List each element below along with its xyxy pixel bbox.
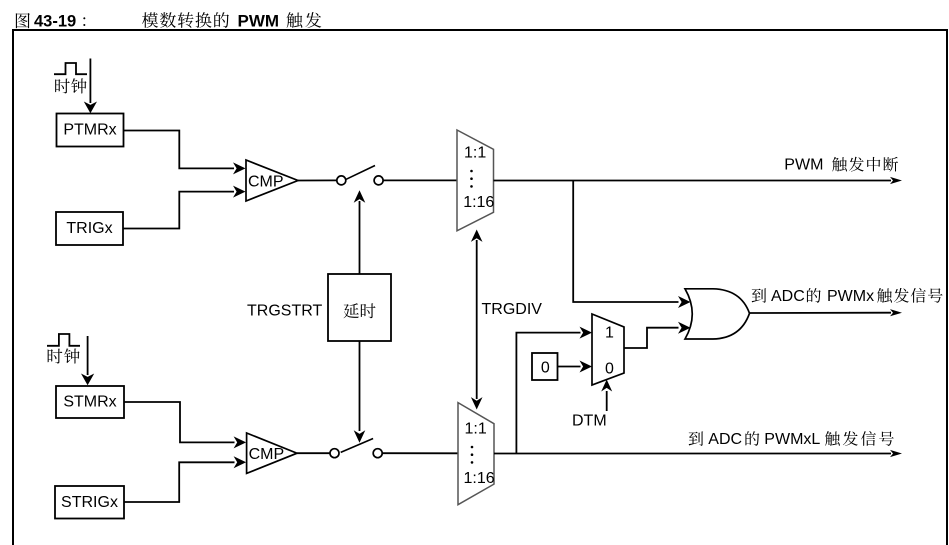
wire divider2 output branch up to mux input 1 [516,333,580,454]
delay box 延时 [328,274,391,341]
switch (top) [337,176,346,185]
svg-text:PWMxL: PWMxL [764,431,820,448]
DTM select arrow [606,391,608,411]
register TRIGx [56,212,123,245]
register PTMRx [57,114,124,147]
clock pulse symbol (bottom) [47,334,80,346]
svg-text:PTMRx: PTMRx [63,122,116,139]
svg-text:TRGDIV: TRGDIV [482,301,543,318]
label 到 ADC 的 PWMx 触发信号 [752,288,766,302]
figure title: 图 43-19： 模数转换的 PWM 触发 [16,12,321,31]
wire STRIGx to CMP2 [124,462,235,502]
svg-text:TRGSTRT: TRGSTRT [247,302,322,319]
svg-text:ADC: ADC [708,431,742,448]
svg-text:CMP: CMP [248,174,284,191]
label 到 ADC 的 PWMxL 触发信号 [689,431,703,445]
wire ADC PWMx trigger output [750,312,892,314]
svg-text:1:16: 1:16 [464,470,495,487]
OR gate [685,289,750,339]
label 时钟 (bottom) [48,349,63,364]
delay arrow down to bottom switch [359,341,361,431]
svg-text:STRIGx: STRIGx [61,494,118,511]
wire 0 box to mux [558,366,581,368]
TRGDIV double-headed arrow [476,240,478,399]
constant 0 box [532,353,558,380]
label 时钟 (top) [55,79,70,94]
switch (bottom) [330,449,339,458]
wire PWM trigger interrupt output [494,180,892,182]
trigger postscaler 1:1..1:16 (bottom) [458,403,494,505]
register STRIGx [55,486,124,519]
clock wire with arrow into STMRx [87,336,89,375]
wire switch2 to divider2 [382,452,458,454]
clock pulse symbol (top) [54,63,87,74]
svg-text:STMRx: STMRx [63,394,116,411]
comparator CMP (top) [246,160,298,201]
mux 1/0 (dead-time select) [592,314,624,385]
wire switch to divider (top) [383,179,457,181]
svg-text:CMP: CMP [249,446,285,463]
svg-text:0: 0 [541,360,550,377]
svg-text:1:16: 1:16 [463,194,494,211]
branch wire to OR gate upper input [573,181,678,303]
wire ADC PWMxL trigger output [494,453,891,455]
wire TRIGx to CMP [123,192,234,229]
svg-text:1:1: 1:1 [465,421,487,438]
svg-text:1:1: 1:1 [464,145,486,162]
register STMRx [56,386,124,418]
svg-text:43-19: 43-19 [34,13,76,31]
delay arrow up to top switch [359,201,361,274]
wire mux output to OR gate lower input [624,328,679,348]
clock wire with arrow into PTMRx [89,59,91,104]
svg-text:TRIGx: TRIGx [66,220,112,237]
svg-text:0: 0 [605,360,614,377]
comparator CMP (bottom) [247,433,297,473]
svg-text:PWMx: PWMx [827,288,874,305]
svg-text:PWM: PWM [784,157,823,174]
svg-text:1: 1 [605,325,614,342]
svg-text:DTM: DTM [572,413,607,430]
wire STMRx to CMP2 [124,402,235,442]
svg-text:ADC: ADC [771,288,805,305]
svg-text:PWM: PWM [238,12,280,31]
trigger postscaler 1:1..1:16 (top) [457,130,494,231]
wire PTMRx to CMP [124,131,234,169]
